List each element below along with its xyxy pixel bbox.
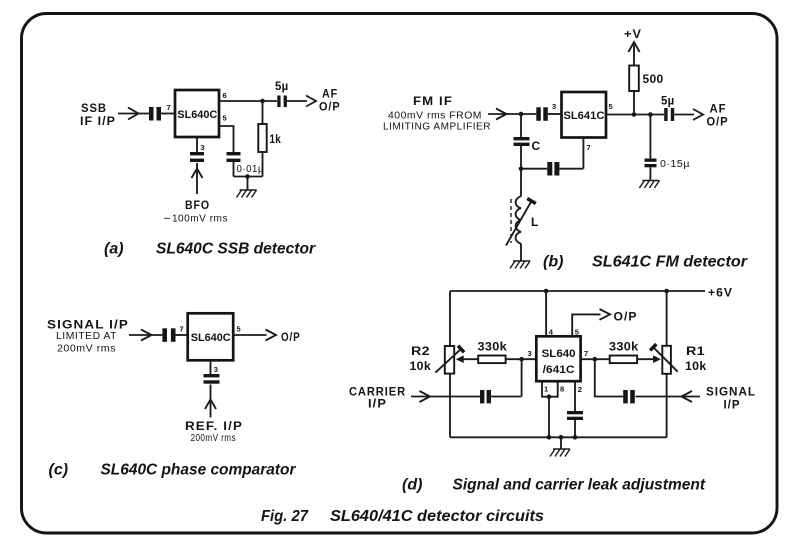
wire pin 4 to rail [545, 291, 547, 336]
inductor core dashed line [510, 199, 512, 243]
svg-text:5: 5 [575, 328, 579, 337]
svg-text:+6V: +6V [708, 286, 733, 300]
svg-text:REF. I/P: REF. I/P [185, 419, 243, 433]
label R2 10k [410, 344, 432, 373]
svg-text:O/P: O/P [614, 310, 638, 324]
svg-text:IF I/P: IF I/P [80, 114, 116, 128]
svg-text:3: 3 [214, 365, 218, 374]
svg-text:SL641C FM detector: SL641C FM detector [592, 254, 748, 271]
svg-text:FM IF: FM IF [413, 94, 453, 108]
wire pin 3 (a) [196, 137, 198, 152]
wire signal input with arrow [636, 391, 701, 402]
svg-text:LIMITING AMPLIFIER: LIMITING AMPLIFIER [383, 122, 491, 133]
svg-text:SSB: SSB [81, 101, 107, 115]
svg-text:7: 7 [584, 349, 588, 358]
svg-text:(a): (a) [104, 241, 124, 258]
svg-text:I/P: I/P [368, 397, 387, 411]
node junction staple/rail [547, 435, 552, 440]
wire +V branch [628, 42, 639, 115]
wire ground stub (a) [247, 177, 249, 191]
wire junction to capacitor C [520, 114, 522, 137]
svg-text:O/P: O/P [319, 100, 341, 114]
wire 0.01µ bottom [233, 162, 235, 177]
wire output (c) with arrow [233, 330, 276, 341]
node REF. I/P label [185, 419, 243, 444]
node junction signal (d) [593, 357, 598, 362]
svg-text:10k: 10k [410, 359, 432, 373]
IC U2 SL641C [562, 92, 607, 138]
svg-text:Signal and carrier leak adjust: Signal and carrier leak adjustment [453, 477, 706, 494]
capacitor pin2 decoupling [567, 411, 583, 420]
resistor 330k right [610, 356, 637, 364]
node SSB IF I/P label [80, 101, 116, 128]
svg-text:+V: +V [624, 27, 642, 41]
capacitor C (b) [514, 137, 530, 146]
svg-text:SL640/41C detector circuits: SL640/41C detector circuits [330, 508, 544, 525]
svg-text:5: 5 [237, 325, 241, 334]
wire signal cap to junction [595, 359, 623, 396]
svg-text:3: 3 [201, 143, 205, 152]
capacitor feedback (b) [547, 162, 559, 176]
wire cap to pin 7 (c) [176, 334, 188, 336]
svg-text:5µ: 5µ [661, 94, 675, 108]
svg-text:6: 6 [223, 91, 227, 100]
svg-text:7: 7 [180, 325, 184, 334]
wire BFO input arrow [192, 163, 203, 194]
ground (a) [237, 190, 257, 198]
svg-text:∼100mV rms: ∼100mV rms [163, 214, 228, 225]
svg-text:SL641C: SL641C [563, 110, 604, 122]
IC U1 SL640C [175, 90, 219, 137]
wire input (a) with arrow [118, 108, 149, 120]
node junction ground/rail [559, 435, 564, 440]
svg-text:SL640C: SL640C [177, 109, 217, 121]
wire pin 5 to output (b) [606, 109, 703, 120]
wire 0.15µ to ground [649, 167, 651, 180]
svg-text:(c): (c) [49, 462, 69, 479]
node junction L/feedback (b) [519, 166, 524, 171]
capacitor 5µ (a) [277, 96, 287, 108]
svg-text:5µ: 5µ [275, 79, 289, 93]
wire +6V top rail [450, 290, 705, 292]
svg-text:10k: 10k [685, 359, 707, 373]
node junction carrier (d) [519, 357, 524, 362]
caption (b) [543, 254, 748, 271]
wire REF input arrow [205, 385, 216, 418]
capacitor 0.01µ (a) [227, 152, 241, 162]
svg-text:1: 1 [544, 385, 548, 394]
svg-text:8: 8 [560, 385, 564, 394]
ground (b) inductor [510, 261, 530, 269]
svg-text:7: 7 [587, 143, 591, 152]
wire 1k bottom [262, 152, 264, 177]
svg-text:SL640C SSB detector: SL640C SSB detector [156, 241, 316, 258]
svg-text:AF: AF [710, 102, 727, 116]
capacitor input coupling (b) [536, 107, 548, 121]
inductor adjust arrow [506, 199, 536, 246]
node junction 500 (b) [632, 112, 637, 117]
wire cap to pin 3 (b) [548, 113, 562, 115]
caption (c) [49, 462, 297, 479]
wire carrier input with arrow [411, 391, 480, 402]
wire pin 3 (c) [210, 360, 212, 374]
wire staple to bottom rail [548, 397, 550, 438]
wire wiper arrow R2 [456, 355, 478, 363]
svg-text:3: 3 [552, 102, 556, 111]
svg-text:O/P: O/P [707, 115, 729, 129]
wire inductor to ground [520, 244, 522, 261]
potentiometer R1 [650, 344, 678, 374]
capacitor input coupling (a) [149, 107, 161, 121]
svg-text:0·01µ: 0·01µ [237, 164, 265, 175]
svg-text:500: 500 [643, 72, 664, 86]
svg-text:Fig. 27: Fig. 27 [261, 508, 309, 525]
wire right rail [666, 291, 668, 437]
svg-text:BFO: BFO [185, 198, 210, 212]
wire bottom joining to ground node (a) [234, 176, 263, 178]
capacitor 0.15µ [645, 159, 657, 168]
node FM IF label [383, 94, 491, 133]
IC U3 SL640C [188, 313, 234, 360]
wire 330k to pin 3 (d) [506, 358, 537, 360]
wire pin2 cap to rail [574, 420, 576, 437]
svg-text:200mV rms: 200mV rms [57, 344, 116, 355]
capacitor BFO coupling (a) [190, 152, 204, 162]
wire pin 6 to output (a) [219, 96, 316, 107]
node junction staple [547, 394, 552, 399]
svg-text:SIGNAL: SIGNAL [706, 385, 756, 399]
node AF O/P label (b) [707, 102, 729, 129]
potentiometer R2 [435, 346, 464, 374]
svg-text:330k: 330k [478, 340, 508, 354]
wire junction to inductor [520, 169, 522, 197]
wire junction to 330k right [595, 358, 610, 360]
ground (b) 0.15µ [639, 181, 659, 189]
svg-text:SL640C phase comparator: SL640C phase comparator [101, 462, 297, 479]
figure caption Fig. 27 [261, 508, 544, 525]
capacitor 5µ (b) [664, 108, 674, 121]
svg-text:O/P: O/P [281, 330, 301, 344]
wire wiper arrow R1 [637, 355, 661, 363]
svg-text:SIGNAL I/P: SIGNAL I/P [47, 318, 129, 332]
node junction ground (a) [245, 174, 250, 179]
svg-text:(b): (b) [543, 254, 563, 271]
node junction input (b) [519, 112, 524, 117]
IC U4 SL640/641C [536, 336, 580, 381]
svg-text:3: 3 [528, 349, 532, 358]
wire 0.15µ branch [649, 115, 651, 159]
svg-text:5: 5 [609, 102, 613, 111]
capacitor signal coupling [623, 390, 635, 403]
inductor L [516, 196, 521, 243]
wire junction to resistor 1k [262, 101, 264, 124]
node SIGNAL I/P label [47, 318, 129, 355]
node CARRIER I/P label [349, 385, 406, 411]
svg-text:(d): (d) [402, 477, 422, 494]
wire pin 5 to O/P arrow [572, 309, 610, 336]
svg-text:LIMITED AT: LIMITED AT [56, 331, 117, 342]
wire cap to pin 7 (a) [161, 113, 175, 115]
svg-text:330k: 330k [609, 340, 639, 354]
wire ground stub (d) [560, 437, 562, 449]
svg-text:I/P: I/P [724, 398, 741, 412]
label R1 10k [685, 344, 707, 373]
node SIGNAL I/P label (d) [706, 385, 756, 412]
wire bottom rail [450, 436, 667, 438]
capacitor input coupling (c) [162, 328, 175, 342]
svg-text:R1: R1 [686, 344, 705, 358]
svg-text:5: 5 [223, 114, 227, 123]
resistor 1k [258, 124, 266, 152]
wire carrier cap to junction [491, 359, 522, 396]
wire input (c) with arrow [129, 330, 162, 341]
svg-text:200mV rms: 200mV rms [191, 433, 237, 444]
wire pin 5 (a) [219, 126, 234, 152]
svg-text:7: 7 [167, 103, 171, 112]
wire left rail [449, 291, 451, 437]
node AF O/P label (a) [319, 87, 341, 114]
wire C to lower junction [520, 146, 522, 169]
svg-text:SL640C: SL640C [191, 332, 231, 344]
node junction R1/rail [664, 289, 669, 294]
wire pins 1 8 staple [542, 381, 558, 397]
svg-text:0·15µ: 0·15µ [660, 159, 690, 170]
svg-text:1k: 1k [270, 132, 282, 146]
svg-text:2: 2 [578, 385, 582, 394]
node junction 0.15µ (b) [648, 112, 653, 117]
node junction pin2/rail [573, 435, 578, 440]
caption (d) [402, 477, 706, 494]
ground (d) [550, 449, 570, 457]
wire feedback to pin 7 (b) [521, 138, 583, 169]
node junction pin4/rail [544, 289, 549, 294]
wire pin 2 to capacitor [574, 381, 576, 411]
svg-text:L: L [531, 215, 539, 229]
svg-text:C: C [532, 139, 541, 153]
svg-text:/641C: /641C [543, 364, 575, 376]
svg-text:AF: AF [322, 87, 338, 101]
svg-text:SL640: SL640 [542, 348, 576, 360]
wire pin 7 to junction [581, 358, 595, 360]
svg-text:400mV rms FROM: 400mV rms FROM [388, 111, 482, 122]
capacitor carrier coupling [480, 390, 491, 403]
caption (a) [104, 241, 316, 258]
wire input (b) with arrow [488, 109, 536, 120]
resistor 330k left [478, 356, 505, 364]
svg-text:R2: R2 [411, 344, 430, 358]
capacitor REF coupling (c) [204, 374, 220, 384]
resistor 500 [629, 66, 639, 92]
node junction pin6/1k (a) [260, 99, 265, 104]
